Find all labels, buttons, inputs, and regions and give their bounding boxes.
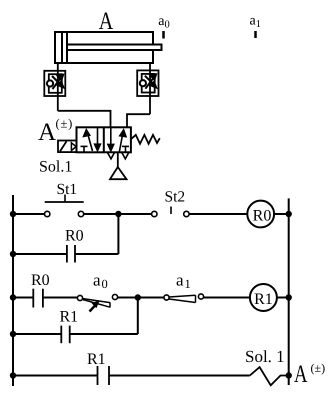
node: rail-branch1	[10, 251, 16, 257]
wire: branch2 riser	[137, 298, 139, 335]
relay coil R1	[250, 284, 277, 311]
contact R1 (rung3)	[98, 366, 110, 385]
svg-text:R1: R1	[87, 351, 106, 368]
contact R0 (seal-in)	[67, 245, 75, 263]
svg-text:R0: R0	[31, 272, 50, 289]
svg-text:R1: R1	[60, 309, 79, 326]
svg-text:R0: R0	[253, 208, 272, 225]
solenoid Sol.1 zigzag	[250, 367, 289, 385]
node: rail-rung2	[10, 294, 16, 300]
relay coil R0	[247, 201, 274, 228]
valve divider	[103, 127, 105, 152]
rung 2 wire	[13, 297, 33, 299]
svg-text:(±): (±)	[56, 117, 74, 131]
node: rail-rung1	[10, 211, 16, 217]
wire: branch1 riser	[117, 214, 119, 254]
flow control valve FC2 (right)	[137, 70, 158, 96]
node: junction rung2/branch2	[135, 294, 141, 300]
supply line below valve	[117, 152, 119, 167]
right box: up arrow	[119, 130, 126, 152]
left box: blocked port T	[81, 146, 88, 151]
svg-text:R0: R0	[65, 228, 84, 245]
right rail	[288, 198, 290, 385]
limit switch a0	[77, 294, 117, 311]
a1 sensor tick	[254, 31, 257, 38]
piston	[61, 32, 63, 63]
contact R0 (rung2)	[33, 289, 43, 308]
wire: right pipe horizontal	[127, 114, 150, 127]
node: junction rung1/branch	[115, 211, 121, 217]
node: rail-rung3	[10, 372, 16, 378]
supply funnel triangle	[110, 167, 127, 179]
switch St2	[152, 207, 189, 217]
pushbutton St1	[45, 195, 84, 217]
svg-text:St2: St2	[165, 189, 186, 206]
rung 3 wire	[13, 375, 98, 377]
left box: down arrow	[95, 128, 101, 151]
right box: blocked port T	[122, 146, 129, 151]
svg-text:A: A	[294, 361, 308, 388]
limit switch a1	[164, 294, 204, 303]
exhaust triangle left	[108, 153, 115, 159]
a0 sensor tick	[162, 31, 165, 39]
node: coil R0 to right rail	[286, 211, 292, 217]
svg-text:A: A	[38, 119, 56, 146]
cylinder A body	[55, 32, 153, 63]
branch 1 wire	[13, 253, 67, 255]
rung 1 wire	[13, 213, 45, 215]
svg-text:Sol.1: Sol.1	[39, 159, 72, 176]
svg-text:(±): (±)	[311, 361, 326, 375]
svg-text:A: A	[99, 8, 114, 35]
node: coil R1 to right rail	[286, 294, 292, 300]
node: sol to right rail	[286, 372, 292, 378]
right box: down arrow	[108, 128, 114, 151]
contact R1 (seal-in)	[61, 326, 69, 344]
svg-text:R1: R1	[254, 291, 273, 308]
wire: right cylinder port down through flow valve	[149, 63, 151, 114]
wire: left cylinder port down through flow valve	[57, 63, 59, 111]
flow control valve FC1 (left)	[44, 71, 65, 96]
left rail	[12, 195, 14, 386]
solenoid actuator box	[58, 141, 77, 153]
return spring	[131, 135, 160, 144]
valve V1 body (5/2 directional valve)	[77, 127, 131, 152]
exhaust triangle right	[122, 153, 129, 159]
left box: up arrow	[84, 130, 93, 151]
branch 2 wire	[13, 333, 61, 335]
svg-text:Sol. 1: Sol. 1	[245, 347, 285, 366]
node: rail-branch2	[10, 331, 16, 337]
svg-text:St1: St1	[57, 181, 78, 198]
piston rod	[67, 45, 162, 51]
wire: left pipe horizontal	[58, 111, 111, 128]
